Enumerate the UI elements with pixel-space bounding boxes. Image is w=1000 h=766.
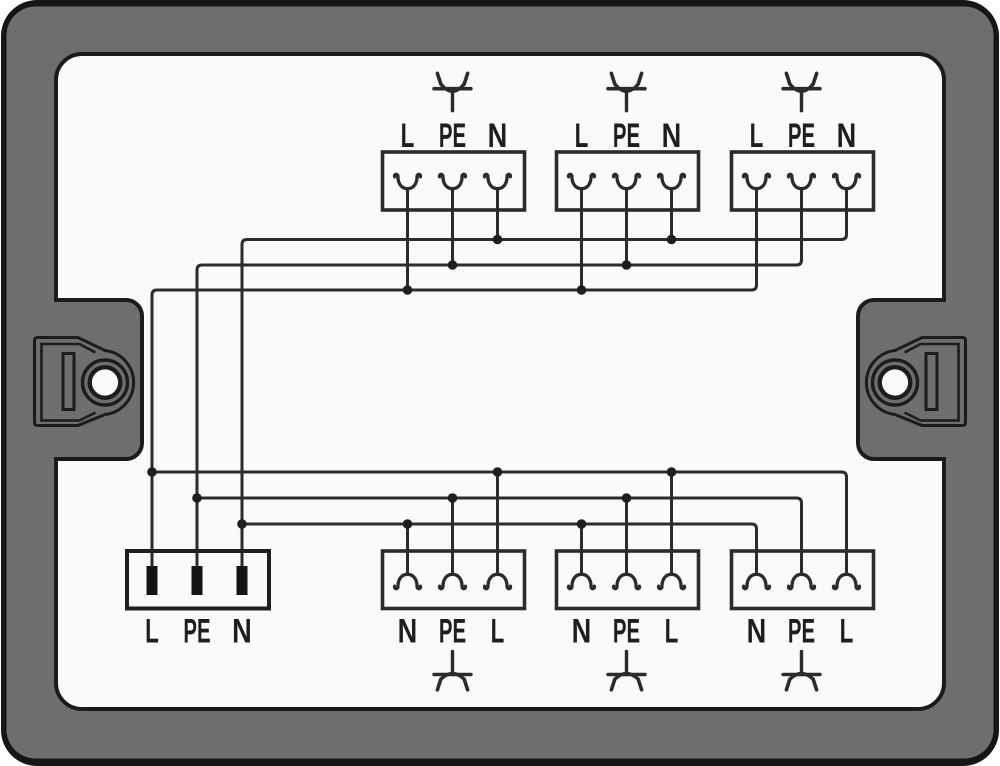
junction bottom N bus block1 bbox=[403, 519, 413, 529]
outgoing connector block bottom 3 bbox=[732, 551, 874, 690]
wire: bottom PE bus bbox=[197, 498, 802, 574]
junction top PE bus block1 bbox=[448, 260, 458, 270]
wire: top block2 N drop bbox=[670, 188, 673, 240]
junction bottom PE bus block1 bbox=[448, 493, 458, 503]
junction top PE bus block2 bbox=[622, 260, 632, 270]
junction bottom N bus riser bbox=[237, 519, 247, 529]
wire: bottom block1 PE drop bbox=[451, 498, 454, 574]
svg-text:L: L bbox=[145, 613, 159, 651]
wire: top block2 L drop bbox=[580, 188, 583, 290]
junction bottom L bus block2 bbox=[667, 467, 677, 477]
wire: L feed riser and top L bus bbox=[152, 187, 757, 567]
junction bottom L bus riser bbox=[147, 467, 157, 477]
pin N bbox=[237, 566, 248, 595]
wire: bottom block2 PE drop bbox=[625, 498, 628, 574]
junction bottom L bus block1 bbox=[493, 467, 503, 477]
junction top N bus block2 bbox=[667, 235, 677, 245]
wire: top block1 L drop bbox=[406, 188, 409, 290]
mounting lug left bbox=[35, 338, 134, 426]
junction top N bus block1 bbox=[493, 235, 503, 245]
junction bottom PE bus riser bbox=[192, 493, 202, 503]
junction bottom N bus block2 bbox=[577, 519, 587, 529]
outgoing connector block bottom 1 bbox=[383, 551, 525, 690]
svg-text:N: N bbox=[232, 612, 252, 651]
wire: bottom block2 L drop bbox=[670, 472, 673, 574]
wire: top block1 N drop bbox=[496, 188, 499, 240]
wire: top block2 PE drop bbox=[625, 188, 628, 265]
wire: top block1 PE drop bbox=[451, 188, 454, 265]
wire: bottom block2 N drop bbox=[580, 524, 583, 574]
outgoing connector block top 2 bbox=[557, 73, 699, 210]
outgoing connector block top 3 bbox=[732, 73, 874, 210]
wire: PE feed riser and top PE bus bbox=[197, 187, 802, 567]
wire: bottom L bus bbox=[152, 472, 847, 574]
outgoing connector block bottom 2 bbox=[557, 551, 699, 690]
pin PE bbox=[192, 566, 203, 595]
wire: N feed riser and top N bus bbox=[242, 187, 847, 567]
wire: bottom N bus bbox=[242, 524, 757, 574]
junction bottom PE bus block2 bbox=[622, 493, 632, 503]
junction top L bus block2 bbox=[577, 285, 587, 295]
junction top L bus block1 bbox=[403, 285, 413, 295]
outgoing connector block top 1 bbox=[383, 73, 525, 210]
wire: bottom block1 L drop bbox=[496, 472, 499, 574]
svg-text:PE: PE bbox=[183, 612, 210, 650]
supply feed-in block bbox=[127, 551, 269, 651]
mounting lug right bbox=[866, 338, 965, 426]
inner panel (white) with lug recesses bbox=[56, 54, 944, 709]
pin L bbox=[147, 566, 158, 595]
wire: bottom block1 N drop bbox=[406, 524, 409, 574]
